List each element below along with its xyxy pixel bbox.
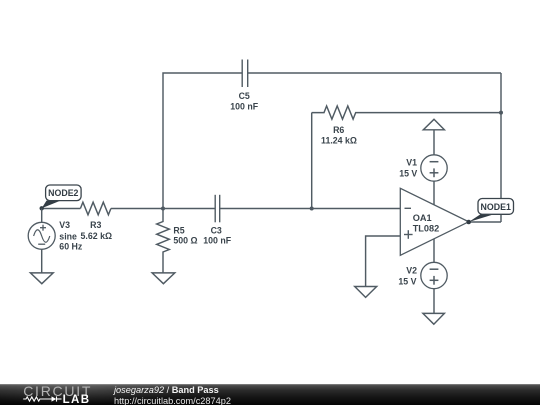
wire op-amp V+ pin to V1 (433, 181, 435, 205)
node flag NODE2 box (46, 185, 82, 201)
power arrow VCC (423, 119, 444, 130)
voltage source V1 (421, 155, 447, 181)
svg-text:NODE2: NODE2 (48, 188, 78, 198)
junction at R5 / C5 branch (161, 207, 165, 211)
svg-text:60 Hz: 60 Hz (59, 242, 83, 252)
wire top-left segment (C5 left lead) (163, 73, 242, 209)
voltage source V3 (sine) (28, 209, 55, 273)
ground under V3 (30, 273, 53, 284)
ground at op-amp plus input (355, 287, 377, 298)
svg-text:15 V: 15 V (399, 168, 417, 178)
node flag NODE2 pointer (40, 201, 61, 211)
wire op-amp output to right bus (469, 221, 501, 223)
svg-text:TL082: TL082 (413, 224, 440, 234)
ground under R5 (152, 273, 175, 284)
wire C3 to feedback junction (220, 208, 312, 210)
wire right vertical bus (output up to feedback) (500, 73, 502, 222)
capacitor C5 (242, 60, 248, 88)
svg-text:C3: C3 (211, 226, 222, 236)
CircuitLab logo resistor-diode glyph (23, 396, 61, 401)
wire op-amp plus input to ground (366, 236, 401, 286)
svg-text:V2: V2 (406, 266, 417, 276)
wire junction to op-amp minus input (312, 208, 401, 210)
wire V2 to ground (433, 289, 435, 314)
svg-text:OA1: OA1 (413, 213, 432, 223)
resistor R5 (157, 209, 170, 273)
svg-text:V3: V3 (59, 220, 70, 230)
resistor R6 (312, 106, 501, 119)
svg-text:100 nF: 100 nF (203, 235, 231, 245)
node flag NODE1 pointer (466, 214, 494, 224)
wire V1 to VCC arrow (433, 130, 435, 155)
voltage source V2 (421, 262, 447, 288)
junction at R6 right and output bus (499, 111, 503, 115)
svg-text:LAB: LAB (63, 394, 91, 405)
svg-text:5.62 kΩ: 5.62 kΩ (81, 231, 113, 241)
node flag NODE1 box (478, 199, 514, 215)
svg-text:C5: C5 (239, 91, 250, 101)
svg-text:R5: R5 (173, 226, 184, 236)
wire top-right segment (C5 right lead to right bus) (248, 72, 501, 74)
svg-text:15 V: 15 V (398, 277, 416, 287)
svg-text:R6: R6 (333, 125, 344, 135)
op-amp OA1 (400, 188, 468, 255)
wire R6 left branch down to main wire (311, 113, 313, 209)
wire main node to R3 (42, 208, 81, 210)
junction at feedback branch (310, 207, 314, 211)
capacitor C3 (215, 195, 220, 223)
svg-text:500 Ω: 500 Ω (173, 235, 197, 245)
svg-text:R3: R3 (90, 220, 101, 230)
wire op-amp V- pin to V2 (433, 239, 435, 262)
svg-text:100 nF: 100 nF (230, 101, 258, 111)
resistor R3 (80, 202, 111, 215)
svg-text:NODE1: NODE1 (481, 202, 511, 212)
svg-text:sine: sine (59, 231, 77, 241)
ground under V2 (423, 313, 445, 324)
wire R3 to junction (111, 208, 163, 210)
wire junction to C3 (163, 208, 215, 210)
svg-text:V1: V1 (406, 158, 417, 168)
svg-text:11.24 kΩ: 11.24 kΩ (321, 136, 357, 146)
